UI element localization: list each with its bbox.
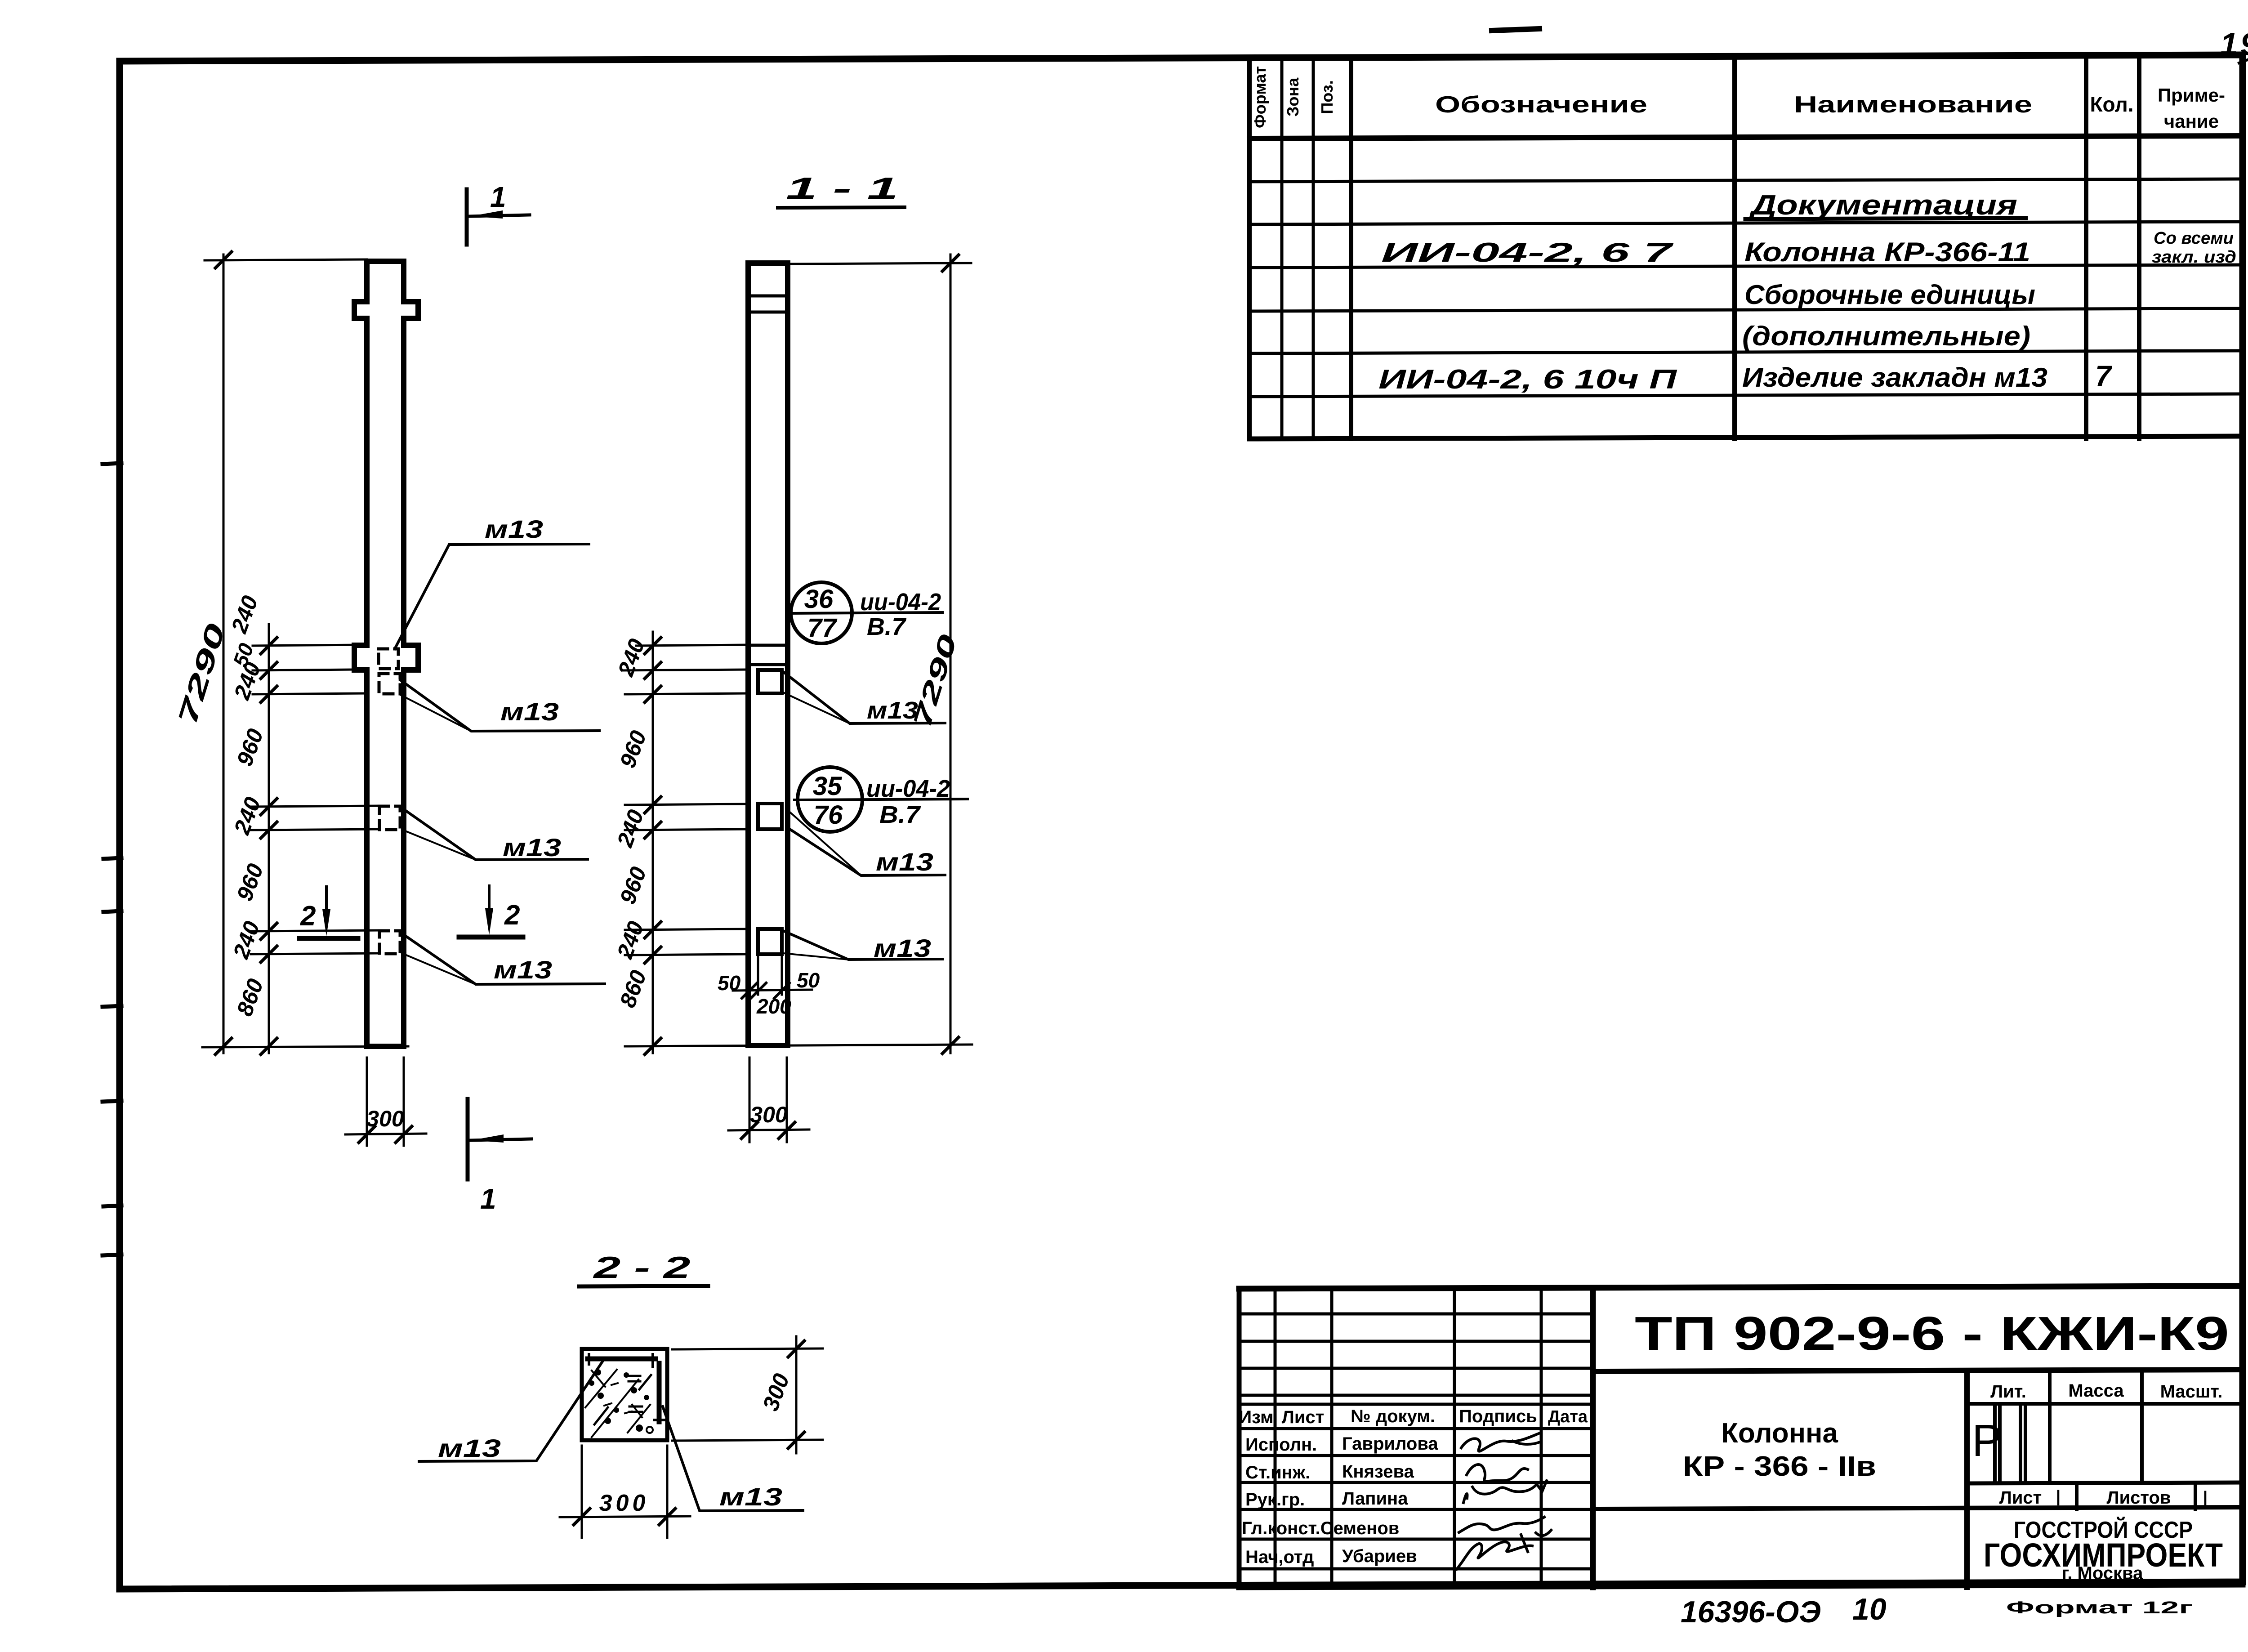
- svg-text:Изм: Изм: [1239, 1407, 1273, 1427]
- svg-text:Гл.конст.Семенов: Гл.конст.Семенов: [1242, 1518, 1399, 1538]
- 1-1 title: [778, 171, 905, 208]
- svg-text:16396-ОЭ: 16396-ОЭ: [1681, 1595, 1821, 1629]
- chain tick slashes (left): [261, 638, 277, 1054]
- svg-text:Изделие закладн м13: Изделие закладн м13: [1742, 362, 2047, 393]
- overall dimension 7290 (right): [787, 254, 971, 1054]
- svg-text:300: 300: [366, 1106, 404, 1131]
- svg-text:200: 200: [756, 995, 791, 1018]
- svg-text:чание: чание: [2164, 111, 2219, 132]
- svg-text:Приме-: Приме-: [2158, 85, 2225, 106]
- svg-text:м13: м13: [494, 955, 552, 984]
- svg-text:Исполн.: Исполн.: [1245, 1435, 1317, 1455]
- column outline with consoles: [354, 261, 418, 1046]
- section mark 2 (left of column): [299, 887, 358, 938]
- m13 label 3 (middle plate, left view): [402, 808, 588, 862]
- embedded plate m13 (dashed) in middle console: [379, 649, 400, 954]
- flag circle 36/77: [791, 582, 942, 643]
- svg-text:19: 19: [2220, 27, 2248, 62]
- svg-text:Гаврилова: Гаврилова: [1342, 1434, 1438, 1454]
- svg-text:50: 50: [718, 971, 741, 995]
- svg-text:1: 1: [490, 181, 506, 213]
- svg-text:Дата: Дата: [1548, 1407, 1588, 1426]
- svg-text:1 - 1: 1 - 1: [786, 171, 898, 205]
- svg-text:1: 1: [480, 1183, 496, 1215]
- svg-text:Документация: Документация: [1748, 190, 2017, 221]
- m13 label 1 (console plate, left view): [395, 515, 589, 649]
- svg-text:240: 240: [613, 635, 650, 680]
- svg-text:2 - 2: 2 - 2: [592, 1250, 690, 1285]
- m13 label right (section 2-2): [663, 1406, 803, 1511]
- m13 label 2 (plate below console, left view): [400, 680, 599, 731]
- svg-text:Формат 12г: Формат 12г: [2006, 1598, 2193, 1617]
- svg-text:960: 960: [232, 725, 268, 769]
- svg-text:Кол.: Кол.: [2090, 93, 2133, 116]
- svg-text:300: 300: [758, 1370, 794, 1414]
- svg-text:Формат: Формат: [1251, 66, 1269, 128]
- svg-text:Ст.инж.: Ст.инж.: [1245, 1463, 1310, 1482]
- svg-text:77: 77: [807, 613, 838, 643]
- section square 300x300: [582, 1349, 667, 1440]
- spec table headers: [1251, 66, 2225, 132]
- svg-text:м13: м13: [503, 833, 561, 862]
- svg-text:м13: м13: [438, 1434, 501, 1462]
- svg-text:960: 960: [232, 860, 268, 904]
- horizontal dim 300 (section 2-2): [560, 1446, 690, 1538]
- svg-text:I: I: [2055, 1485, 2061, 1510]
- section flag 1 (bottom): [468, 1099, 531, 1215]
- chain tick slashes (1-1): [645, 638, 661, 1054]
- svg-text:76: 76: [814, 800, 843, 830]
- svg-text:Убариев: Убариев: [1342, 1546, 1417, 1566]
- signatures: [1457, 1433, 1551, 1569]
- svg-text:Подпись: Подпись: [1459, 1406, 1537, 1426]
- svg-text:Сборочные единицы: Сборочные единицы: [1744, 280, 2035, 310]
- m13 label 3 (1-1): [783, 931, 942, 962]
- svg-text:ии-04-2: ии-04-2: [866, 775, 950, 802]
- section mark 2 (right of column): [459, 886, 523, 937]
- svg-text:м13: м13: [500, 697, 559, 726]
- svg-text:КР - 366 - IIв: КР - 366 - IIв: [1683, 1451, 1876, 1482]
- fold tick marks on left border: [103, 463, 121, 1255]
- svg-text:240: 240: [228, 918, 265, 962]
- concrete hatch inside section: [585, 1370, 653, 1437]
- flag circle 35/76: [794, 767, 968, 832]
- svg-text:36: 36: [804, 585, 834, 614]
- svg-text:Лист: Лист: [1999, 1488, 2042, 1508]
- title block grid: [1239, 1286, 2243, 1587]
- 50/200/50 dims under bottom plate (1-1): [733, 956, 812, 998]
- svg-text:7: 7: [2095, 360, 2113, 392]
- svg-text:ТП 902-9-6 - КЖИ-К9: ТП 902-9-6 - КЖИ-К9: [1635, 1307, 2229, 1360]
- svg-text:240: 240: [226, 592, 263, 637]
- svg-text:Лапина: Лапина: [1342, 1489, 1408, 1509]
- svg-text:860: 860: [232, 975, 268, 1019]
- svg-text:Лит.: Лит.: [1990, 1382, 2026, 1402]
- svg-text:м13: м13: [485, 515, 543, 543]
- svg-text:240: 240: [229, 659, 266, 703]
- svg-text:35: 35: [813, 772, 842, 801]
- svg-text:10: 10: [1852, 1592, 1887, 1626]
- svg-text:Листов: Листов: [2107, 1488, 2171, 1508]
- chain dimension line (left view): [251, 624, 379, 1053]
- console bands in side view: [748, 296, 788, 665]
- svg-text:Со всеми: Со всеми: [2154, 229, 2234, 248]
- spec table handwritten entries: [1378, 190, 2236, 394]
- chain labels (1-1): [612, 635, 651, 1011]
- svg-text:(дополнительные): (дополнительные): [1742, 321, 2030, 351]
- bottom width dim 300 (left view): [345, 1058, 426, 1146]
- title block texts: [1239, 1307, 2229, 1583]
- svg-text:Поз.: Поз.: [1318, 80, 1336, 114]
- svg-text:300: 300: [750, 1102, 788, 1127]
- m13 label left (section 2-2): [419, 1362, 602, 1462]
- svg-text:ИИ-04-2, 6 7: ИИ-04-2, 6 7: [1381, 237, 1674, 268]
- svg-text:Наименование: Наименование: [1794, 92, 2032, 118]
- section flag 1 (top): [467, 181, 530, 245]
- svg-text:м13: м13: [876, 848, 933, 876]
- m13 label 1 (1-1): [783, 672, 945, 724]
- svg-text:2: 2: [504, 900, 520, 931]
- 2-2 title: [579, 1250, 708, 1286]
- svg-text:Колонна КР-366-11: Колонна КР-366-11: [1744, 237, 2030, 267]
- svg-text:I: I: [2202, 1486, 2208, 1511]
- svg-text:Р: Р: [1972, 1415, 2002, 1466]
- svg-text:г. Москва: г. Москва: [2062, 1563, 2143, 1583]
- embedded plates m13 (1-1 view): [758, 670, 782, 954]
- svg-text:240: 240: [229, 794, 266, 838]
- svg-text:7290: 7290: [172, 620, 231, 728]
- overall dimension line 7290 (left): [202, 252, 408, 1054]
- bottom width dim 300 (1-1): [728, 1058, 809, 1142]
- column section outline (1-1): [748, 263, 788, 1045]
- svg-text:2: 2: [300, 901, 316, 932]
- svg-text:Обозначение: Обозначение: [1435, 92, 1647, 118]
- svg-text:№ докум.: № докум.: [1351, 1406, 1435, 1426]
- svg-text:Зона: Зона: [1284, 77, 1302, 116]
- svg-text:В.7: В.7: [879, 801, 921, 828]
- svg-text:Рук.гр.: Рук.гр.: [1245, 1490, 1305, 1509]
- specification table grid: [1249, 57, 2243, 439]
- svg-text:ии-04-2: ии-04-2: [860, 589, 941, 616]
- svg-text:Лист: Лист: [1282, 1407, 1325, 1427]
- svg-text:Нач,отд: Нач,отд: [1245, 1547, 1314, 1567]
- svg-text:Масса: Масса: [2068, 1381, 2124, 1401]
- svg-text:м13: м13: [719, 1482, 782, 1511]
- svg-text:В.7: В.7: [867, 613, 907, 640]
- svg-text:300: 300: [599, 1490, 649, 1516]
- chain labels (left view): [226, 592, 268, 1019]
- svg-text:960: 960: [615, 863, 651, 907]
- scan artifact dash: [1492, 29, 1539, 31]
- bottom annotations: [1681, 1592, 2193, 1629]
- vertical dim 300 (section 2-2): [672, 1336, 823, 1453]
- m13 label 4 (bottom plate, left view): [402, 933, 605, 984]
- svg-text:50: 50: [797, 969, 820, 992]
- svg-text:7290: 7290: [907, 631, 962, 731]
- svg-text:960: 960: [615, 727, 651, 771]
- m13 label 2 (1-1): [787, 809, 945, 876]
- chain dimension line (1-1): [622, 632, 972, 1053]
- svg-text:Колонна: Колонна: [1721, 1418, 1838, 1449]
- svg-text:ИИ-04-2, 6 10ч П: ИИ-04-2, 6 10ч П: [1378, 364, 1678, 394]
- svg-text:Князева: Князева: [1342, 1462, 1414, 1482]
- svg-text:860: 860: [615, 967, 651, 1011]
- svg-text:Масшт.: Масшт.: [2160, 1382, 2223, 1402]
- page number 19: [2220, 27, 2248, 63]
- svg-text:закл. изд: закл. изд: [2152, 248, 2236, 267]
